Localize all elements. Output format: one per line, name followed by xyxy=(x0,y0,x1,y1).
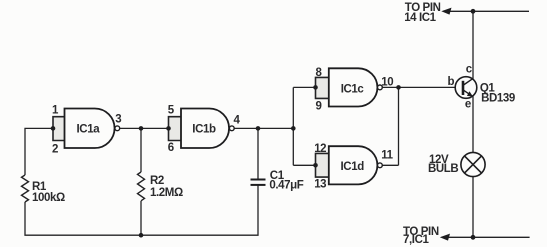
svg-text:3: 3 xyxy=(115,113,121,125)
svg-text:11: 11 xyxy=(381,150,393,162)
svg-text:0.47μF: 0.47μF xyxy=(269,179,303,191)
svg-text:IC1a: IC1a xyxy=(77,124,101,136)
svg-text:10: 10 xyxy=(381,76,393,88)
svg-text:BD139: BD139 xyxy=(481,92,515,104)
svg-text:7,IC1: 7,IC1 xyxy=(403,234,429,246)
svg-text:1: 1 xyxy=(52,104,59,116)
svg-text:e: e xyxy=(465,98,471,110)
svg-text:13: 13 xyxy=(314,179,326,191)
svg-text:9: 9 xyxy=(316,101,322,113)
svg-text:1.2MΩ: 1.2MΩ xyxy=(150,187,183,199)
svg-text:b: b xyxy=(448,76,455,88)
svg-text:8: 8 xyxy=(316,67,323,79)
svg-text:6: 6 xyxy=(168,142,174,154)
svg-text:c: c xyxy=(466,64,473,76)
svg-text:R2: R2 xyxy=(150,175,164,187)
svg-text:BULB: BULB xyxy=(428,163,458,175)
svg-text:12: 12 xyxy=(314,143,326,155)
svg-text:14 IC1: 14 IC1 xyxy=(404,12,436,24)
svg-text:IC1c: IC1c xyxy=(341,84,365,96)
svg-text:4: 4 xyxy=(234,114,241,126)
svg-text:IC1d: IC1d xyxy=(341,161,365,173)
svg-text:IC1b: IC1b xyxy=(192,124,216,136)
svg-text:2: 2 xyxy=(52,143,58,155)
svg-text:100kΩ: 100kΩ xyxy=(32,192,65,204)
svg-text:5: 5 xyxy=(168,104,175,116)
